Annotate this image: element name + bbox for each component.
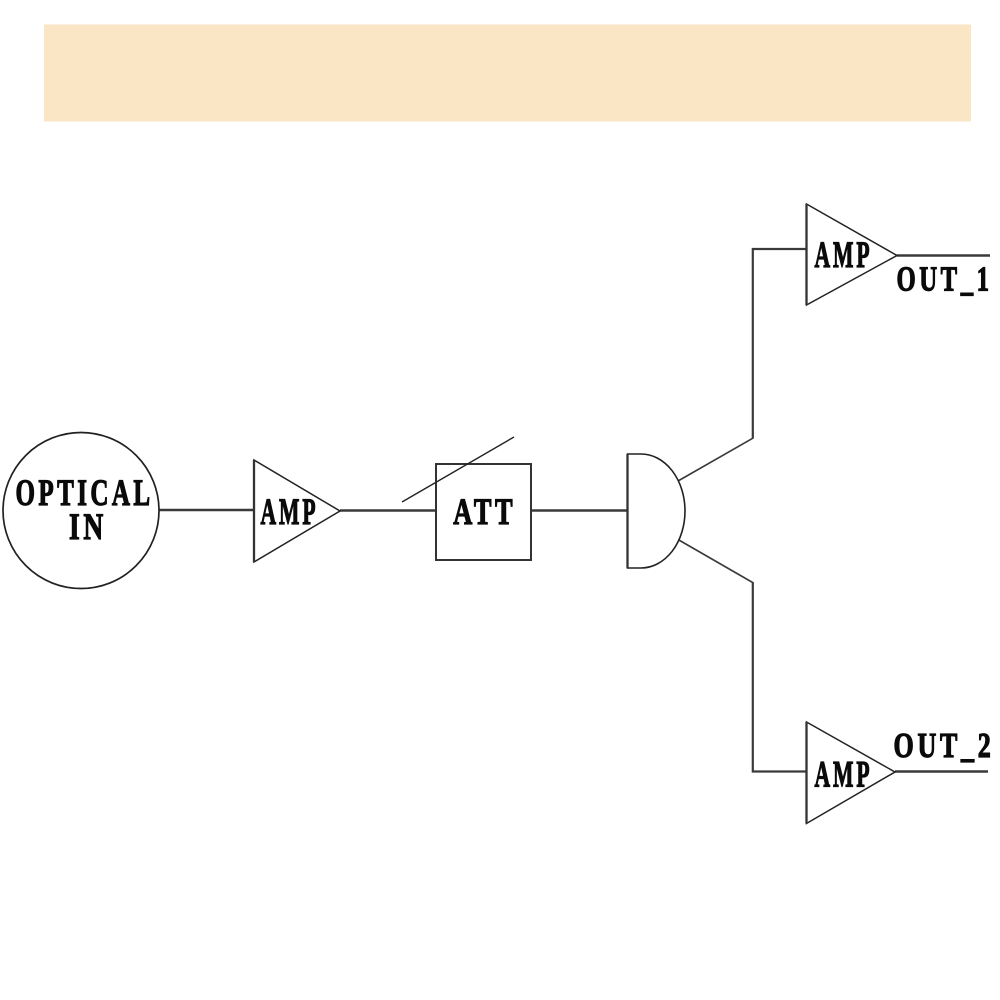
svg-text:AMP: AMP (815, 755, 873, 796)
svg-text:IN: IN (69, 507, 107, 548)
svg-text:AMP: AMP (815, 235, 873, 276)
svg-text:ATT: ATT (453, 492, 516, 533)
svg-text:AMP: AMP (261, 492, 319, 533)
svg-text:OUT_2: OUT_2 (894, 726, 995, 765)
svg-text:OUT_1: OUT_1 (897, 260, 993, 299)
